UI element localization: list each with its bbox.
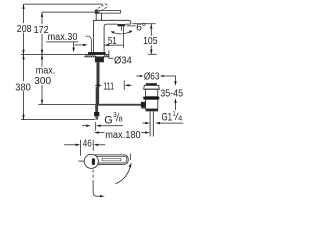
hose B end fitting: [94, 112, 99, 116]
wire deck bottom line: [84, 56, 109, 58]
wire O63 right line to corner: [163, 76, 176, 84]
arrow 380 bottom: [22, 115, 24, 120]
arrowheads left dims: [22, 4, 43, 120]
arrow G114: [155, 122, 160, 124]
waste upper body: [145, 89, 157, 97]
hose horizontal: [98, 104, 141, 106]
hose A G38 fitting: [141, 102, 146, 108]
knob slot: [92, 158, 95, 165]
arrow 3545 up: [174, 98, 176, 103]
deck hatching: [85, 55, 110, 57]
wire 6deg leader: [127, 25, 136, 27]
faucet neck: [96, 13, 101, 20]
arrow G114 left side: [145, 122, 150, 124]
arrow max30 down: [72, 48, 74, 53]
aerator outlet: [117, 24, 126, 26]
wire hose-end left tail: [82, 125, 87, 127]
arrow 111 right: [125, 84, 130, 86]
label max300: [34, 67, 56, 85]
swivel arc 6deg: [111, 31, 132, 34]
wire 105 extension deck: [148, 53, 157, 55]
svg-text:8: 8: [119, 117, 123, 124]
wire G114 slash: [175, 113, 178, 120]
faucet group: [85, 4, 132, 52]
arrow 380 top: [22, 55, 24, 60]
waste nut: [146, 109, 158, 111]
base plate: [88, 52, 106, 54]
svg-text:G: G: [104, 114, 112, 126]
bracket bar inner: [96, 156, 127, 163]
arrow 3545 top down: [174, 81, 176, 86]
dim 172 line: [41, 12, 43, 54]
svg-text:208: 208: [17, 23, 32, 35]
svg-text:105: 105: [143, 35, 158, 47]
arrow 208 top: [22, 4, 24, 9]
arrow 172 bottom: [41, 50, 43, 55]
dim 105: [145, 36, 160, 45]
svg-text:300: 300: [34, 75, 51, 87]
arrow G38: [96, 125, 101, 127]
wire O63 left line: [136, 75, 140, 77]
wire G114 leader: [159, 122, 184, 124]
wire bottom extension line 380: [21, 119, 95, 121]
wire 46 right tick: [92, 140, 94, 151]
arrow 105 top: [150, 24, 152, 29]
svg-text:1: 1: [173, 111, 176, 118]
arrow 46 right: [93, 144, 98, 146]
arrow O63 left: [140, 75, 144, 77]
arrow 46 left: [76, 144, 81, 146]
wire rotation tick: [129, 154, 131, 160]
supply pipe column: [97, 62, 100, 87]
waste flange: [144, 85, 160, 89]
svg-text:G1: G1: [162, 111, 173, 123]
mounting shank dark: [95, 57, 104, 62]
label 208: [16, 23, 32, 33]
wire 51 leader: [105, 44, 124, 46]
waste lower body: [145, 99, 157, 109]
hose B lower end: [95, 105, 98, 112]
waste seal band: [143, 97, 159, 100]
svg-text:35-45: 35-45: [160, 87, 183, 99]
wire G38 slash: [116, 113, 119, 122]
handle lever solid: [97, 10, 121, 13]
handle pivot block: [95, 10, 98, 14]
wire G38 leader: [100, 125, 123, 127]
svg-text:380: 380: [15, 82, 31, 94]
arrow max300 top: [41, 55, 43, 60]
wire max30 leader down: [73, 42, 75, 49]
svg-text:3: 3: [113, 112, 117, 119]
label 380: [15, 81, 32, 91]
arrow 172 top: [41, 12, 43, 17]
wire G114 left tail: [142, 122, 145, 124]
wire max180 left tail: [98, 132, 105, 134]
wire max30 underline: [46, 41, 78, 43]
svg-text:4: 4: [178, 115, 182, 122]
dim 208 line: [23, 4, 25, 54]
svg-text:Ø34: Ø34: [114, 54, 132, 66]
wire dim 172 extension line: [42, 11, 97, 13]
arrow 105 bottom: [150, 50, 152, 55]
wire 46 left tick: [80, 140, 82, 156]
arrow 111 left: [95, 84, 100, 86]
outlet witness lines: [121, 27, 123, 49]
wire max300 bottom extension: [38, 104, 96, 106]
arrow 208 bottom: [22, 50, 24, 55]
arrow arc right: [129, 31, 133, 34]
arrow max180 left: [94, 131, 99, 133]
knob stub left: [78, 160, 84, 162]
wire dim 208 extension line top: [24, 3, 104, 5]
svg-text:111: 111: [103, 81, 114, 93]
waste side tab: [142, 103, 145, 108]
label 172: [33, 24, 49, 34]
arrow 51 left: [104, 44, 109, 46]
arrow O63 right: [160, 75, 164, 77]
hose vertical: [96, 87, 99, 105]
dim 105 line: [150, 24, 152, 55]
wire knob dashed line: [92, 170, 94, 182]
waste tailpipe: [150, 111, 153, 136]
arrow knob bend: [100, 195, 105, 197]
dim 380 line: [23, 55, 25, 120]
wire knob solid line bend: [93, 182, 101, 197]
wire deck reference line: [21, 54, 109, 56]
knob circle: [84, 154, 98, 168]
wire 111 stub: [129, 84, 132, 86]
svg-text:172: 172: [34, 24, 49, 36]
bracket bar slot: [102, 158, 121, 161]
wire max30 leader right: [74, 44, 83, 46]
wire 111 tick: [123, 81, 125, 91]
arrow hose-end left: [86, 125, 91, 127]
bracket bar outer: [95, 155, 128, 164]
svg-text:Ø63: Ø63: [144, 71, 160, 83]
dim max300 line: [41, 55, 43, 105]
rotation arc arrow: [115, 165, 130, 184]
wire 46 right line: [98, 144, 105, 146]
hose B fitting tip: [95, 116, 98, 119]
arrow arc left: [111, 31, 115, 34]
arrow rotation: [129, 163, 132, 168]
wire max180 right tail: [141, 132, 146, 134]
arrow max30 right: [83, 44, 88, 46]
wire hose-end tick: [95, 122, 97, 131]
handle lever raised dashed: [95, 4, 108, 13]
pull rod: [85, 36, 91, 52]
wire 111 leader left: [95, 84, 102, 86]
svg-text:max.30: max.30: [48, 31, 78, 43]
dim 3545 lower: [175, 100, 177, 111]
arrow max300 bottom: [41, 100, 43, 105]
faucet body and spout outline: [94, 20, 131, 52]
svg-text:max.180: max.180: [105, 129, 141, 141]
deck step and O34 leader: [109, 51, 114, 59]
arrow max180 right: [145, 131, 150, 133]
wire 46 left line: [64, 144, 76, 146]
svg-text:46: 46: [83, 138, 92, 150]
wire 105 extension spout: [133, 23, 156, 25]
waste cap dark band: [146, 83, 157, 85]
